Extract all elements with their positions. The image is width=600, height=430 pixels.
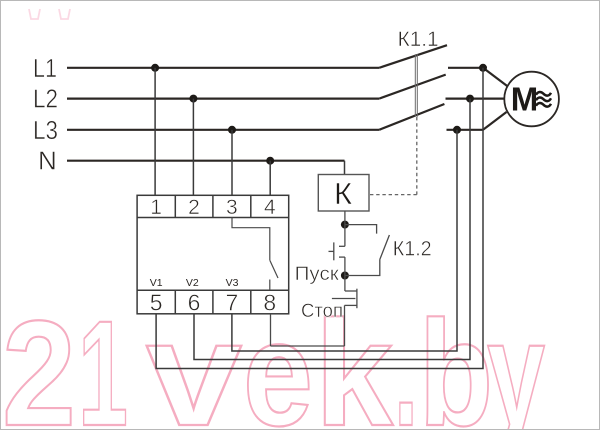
svg-text:6: 6 xyxy=(188,290,201,316)
svg-text:L3: L3 xyxy=(33,115,58,145)
svg-text:V2: V2 xyxy=(186,277,199,289)
svg-text:7: 7 xyxy=(226,290,239,316)
svg-text:4: 4 xyxy=(264,196,276,219)
svg-text:К1.1: К1.1 xyxy=(398,28,439,51)
svg-text:N: N xyxy=(38,146,57,176)
svg-text:3: 3 xyxy=(226,196,238,219)
svg-text:y: y xyxy=(487,289,545,430)
svg-text:8: 8 xyxy=(263,290,276,316)
svg-text:К1.2: К1.2 xyxy=(393,238,432,261)
svg-text:V1: V1 xyxy=(150,277,163,289)
svg-text:1: 1 xyxy=(78,289,128,430)
svg-text:L1: L1 xyxy=(33,53,57,83)
svg-text:Стоп: Стоп xyxy=(301,301,343,322)
svg-text:5: 5 xyxy=(150,290,163,316)
svg-text:Пуск: Пуск xyxy=(295,264,340,285)
svg-text:V3: V3 xyxy=(226,277,239,289)
svg-text:2: 2 xyxy=(2,289,76,430)
svg-text:К: К xyxy=(334,176,352,211)
svg-text:2: 2 xyxy=(188,196,200,219)
svg-text:1: 1 xyxy=(150,196,162,219)
svg-text:М: М xyxy=(511,80,539,117)
svg-text:L2: L2 xyxy=(33,84,58,114)
